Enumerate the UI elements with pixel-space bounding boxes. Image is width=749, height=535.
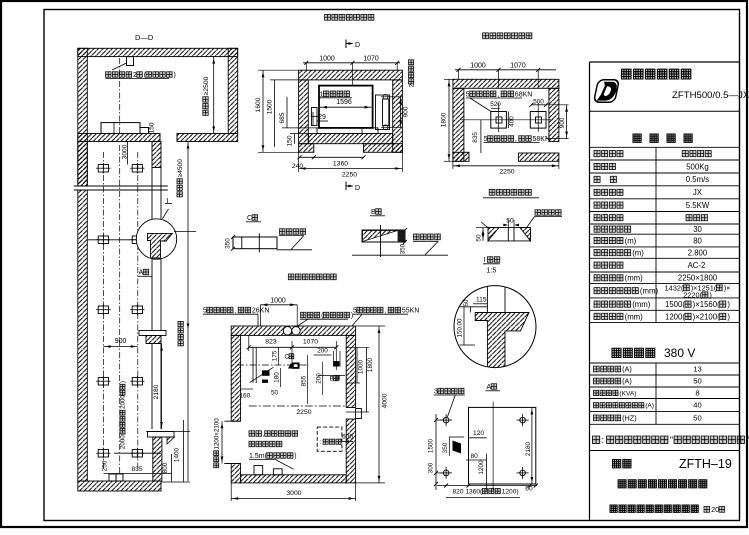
- pit plan title 底坑平面布置图: [483, 33, 532, 39]
- svg-text:): ): [174, 72, 176, 79]
- spec table grid: [590, 146, 740, 148]
- svg-text:1400: 1400: [173, 447, 180, 462]
- spec row 速 度: [594, 176, 616, 182]
- bracket row lines: [88, 239, 152, 241]
- svg-text:1.5m(: 1.5m(: [249, 453, 268, 460]
- svg-text:120: 120: [473, 430, 484, 437]
- dim 900 pit: [559, 117, 566, 128]
- svg-text:1500(: 1500(: [665, 300, 685, 309]
- svg-text:(m): (m): [632, 248, 644, 257]
- door opening jamb lines: [224, 420, 240, 422]
- spec row 电机功率: [594, 202, 623, 208]
- C view dim 350: [224, 238, 231, 249]
- svg-text:2250: 2250: [499, 169, 514, 176]
- mr plan bottom wall: [241, 475, 347, 483]
- slab rope hole edges: [159, 134, 161, 142]
- svg-text:50: 50: [506, 218, 514, 225]
- section marker D bottom: [345, 182, 347, 191]
- section header 技术说明: [633, 134, 641, 142]
- embed label 5号预埋件 26KN: [207, 307, 251, 313]
- landing sill 2: [148, 432, 175, 438]
- detail I corbel hatch: [475, 313, 529, 369]
- svg-text:1200: 1200: [478, 460, 485, 475]
- embed label 2号预埋件 rotated: [408, 60, 415, 88]
- shaft plan left dims: [255, 97, 262, 112]
- svg-text:0.5m/s: 0.5m/s: [686, 175, 709, 184]
- svg-text:2250×1800: 2250×1800: [678, 274, 718, 283]
- svg-text:1360(: 1360(: [465, 489, 483, 496]
- mr dim 2250: [249, 405, 346, 407]
- svg-text:C: C: [285, 354, 290, 361]
- svg-text:A: A: [487, 384, 492, 391]
- svg-text:I: I: [167, 198, 169, 205]
- shaft left wall: [78, 142, 88, 187]
- dim 900 counterweight: [403, 106, 410, 117]
- detail I circle: [454, 286, 536, 368]
- svg-text:150: 150: [148, 122, 155, 133]
- spec row 最大行程(m): [594, 237, 623, 243]
- mr plan left wall upper: [231, 335, 240, 421]
- svg-text:(KVA): (KVA): [619, 390, 636, 397]
- svg-text:600: 600: [342, 434, 353, 441]
- floor break lines: [74, 185, 168, 187]
- rail centerline right: [137, 152, 139, 470]
- C view slab: [233, 237, 277, 249]
- svg-text:2180: 2180: [153, 384, 160, 399]
- svg-text:1600: 1600: [255, 97, 262, 112]
- machine room floor slab left piece: [78, 134, 160, 142]
- svg-text:150.00: 150.00: [456, 318, 463, 337]
- pit buffer centerlines: [460, 119, 553, 121]
- svg-text:2.800: 2.800: [688, 248, 708, 257]
- A view anchor symbols 3号预埋件: [443, 417, 449, 423]
- mr plan right wall upper: [346, 335, 355, 407]
- svg-text:1000: 1000: [319, 56, 335, 63]
- view label C向: [252, 215, 258, 221]
- mr plan right wall lower: [346, 419, 355, 483]
- svg-text:240: 240: [292, 163, 304, 170]
- svg-text:1070: 1070: [303, 339, 318, 346]
- svg-text:(HZ): (HZ): [622, 414, 637, 423]
- svg-text:2: 2: [408, 84, 415, 88]
- spec row 井道尺寸 (mm): [594, 275, 623, 281]
- top floor height dim 顶层高≥4500: [177, 159, 184, 197]
- svg-text:820: 820: [453, 489, 464, 496]
- power row 电源容量(KVA): [594, 390, 619, 395]
- svg-text:30: 30: [693, 225, 702, 234]
- svg-text:400: 400: [509, 116, 516, 127]
- svg-text:(A): (A): [622, 365, 632, 374]
- svg-text:50: 50: [693, 414, 701, 423]
- mr plan top wall: [231, 326, 355, 335]
- svg-text::: :: [602, 435, 605, 445]
- svg-text:5: 5: [353, 308, 357, 315]
- view label B向: [376, 209, 382, 215]
- pit plan top wall: [453, 79, 559, 88]
- detail I rail lines: [486, 285, 488, 313]
- spec row 开门尺寸 (mm): [594, 313, 623, 319]
- svg-text:1000: 1000: [270, 298, 286, 305]
- view label A向 in shaft: [143, 269, 149, 275]
- svg-text:40: 40: [693, 401, 701, 410]
- car sill: [317, 128, 378, 134]
- svg-text:≥2500: ≥2500: [203, 76, 210, 95]
- svg-text:58KN: 58KN: [533, 136, 551, 143]
- detail circle corbel: [148, 233, 173, 258]
- svg-text:1000: 1000: [357, 359, 364, 374]
- dim 835 pit: [472, 132, 479, 143]
- mr floor plinths: [254, 466, 263, 475]
- machine room floor slab right piece: [177, 134, 238, 142]
- machine room left wall upper: [78, 48, 88, 186]
- svg-text:55KN: 55KN: [402, 308, 420, 315]
- svg-text:2250: 2250: [296, 409, 311, 416]
- svg-text:175: 175: [271, 350, 278, 361]
- shaft right wall edge lines upper: [151, 168, 153, 331]
- title block outline: [589, 62, 591, 521]
- shaft right wall top piece: [152, 142, 161, 168]
- svg-text:900: 900: [403, 106, 410, 117]
- spec row 开门方式: [594, 215, 623, 221]
- pit plan left wall: [453, 88, 464, 161]
- svg-text:AC-2: AC-2: [688, 261, 706, 270]
- svg-text:50: 50: [693, 377, 701, 386]
- svg-text:115: 115: [476, 297, 487, 304]
- svg-text:,: ,: [497, 91, 499, 98]
- machine room height dim 机房高≥2500: [203, 76, 210, 115]
- B view dim 350: [399, 243, 406, 254]
- mr door label 机房门1200×2100: [213, 418, 220, 468]
- svg-text:(mm): (mm): [640, 287, 659, 296]
- mr plan left wall lower: [231, 464, 240, 483]
- spec row 最小层站距(m): [594, 250, 631, 256]
- svg-text:855: 855: [300, 375, 307, 386]
- svg-text:(mm): (mm): [632, 300, 651, 309]
- svg-text:1070: 1070: [510, 63, 526, 70]
- svg-text:68KN: 68KN: [515, 91, 533, 98]
- hoisting hook: [127, 57, 134, 66]
- svg-text:(A): (A): [645, 403, 654, 410]
- spec row 轿厢外尺寸 (mm): [594, 301, 631, 307]
- pit plan left wall foot: [453, 152, 469, 161]
- label 机房楼面: [535, 210, 561, 216]
- power row 电源频率(HZ): [594, 415, 621, 421]
- svg-text:,: ,: [515, 136, 517, 143]
- shaft plan bottom dims 240 1360: [299, 156, 364, 158]
- logo Fuji D emblem: [594, 80, 620, 102]
- embed label 3号预埋件: [438, 388, 464, 394]
- svg-text:1200(: 1200(: [665, 312, 685, 321]
- mr view marker C向: [289, 354, 294, 359]
- svg-text:1500: 1500: [427, 438, 434, 453]
- svg-text:ZFTH–19: ZFTH–19: [679, 457, 732, 471]
- svg-text:1200×2100: 1200×2100: [213, 418, 220, 450]
- shaft plan bottom wall: [308, 134, 392, 144]
- svg-text:1:5: 1:5: [487, 268, 497, 275]
- title block divider: [590, 110, 740, 112]
- svg-text:(m): (m): [625, 236, 637, 245]
- C view label 机房楼板: [280, 229, 306, 235]
- detail circle I: [136, 219, 176, 259]
- mr right dims 1000 1800 4000: [357, 359, 364, 374]
- svg-text:4000: 4000: [382, 393, 389, 408]
- dim 400: [509, 116, 516, 127]
- section marker D top: [345, 40, 347, 49]
- shaft right wall edge lines mid: [151, 344, 153, 430]
- svg-text:,: ,: [384, 308, 386, 315]
- svg-text:ZFTH500/0.5—JX: ZFTH500/0.5—JX: [672, 90, 749, 101]
- svg-text:500Kg: 500Kg: [686, 162, 709, 171]
- svg-text:685: 685: [279, 112, 286, 123]
- svg-text:2250: 2250: [342, 172, 357, 179]
- svg-text:823: 823: [265, 339, 277, 346]
- travel height label 提升高度: [178, 321, 183, 346]
- svg-text:5.5KW: 5.5KW: [686, 201, 710, 210]
- A view bottom dims: [437, 485, 537, 487]
- svg-text:160: 160: [240, 393, 251, 400]
- pit buffer right: [530, 112, 546, 129]
- svg-text:180: 180: [273, 372, 280, 383]
- shaft plan left wall: [299, 80, 309, 144]
- svg-text:200: 200: [317, 348, 328, 355]
- shaft car centerline: [119, 145, 121, 473]
- svg-text:": ": [670, 435, 673, 445]
- svg-text:1200): 1200): [502, 489, 519, 496]
- svg-text:): ): [727, 300, 730, 309]
- note row 土建技术要求: [593, 436, 745, 443]
- svg-text:2220(: 2220(: [683, 291, 702, 300]
- drawing number row 图号 ZFTH-19: [613, 460, 632, 468]
- svg-text:50: 50: [463, 299, 470, 306]
- mr dim 855: [300, 375, 307, 386]
- power row 空气开关额定电流(A): [594, 403, 644, 408]
- svg-text:300: 300: [427, 462, 434, 473]
- svg-text:5: 5: [203, 308, 207, 315]
- A view sill wedge: [453, 441, 462, 454]
- mr view marker B向: [334, 376, 339, 381]
- svg-text:3: 3: [434, 389, 438, 396]
- spec row 控制方式: [594, 189, 623, 195]
- svg-text:(mm): (mm): [625, 274, 644, 283]
- dim 1400: [173, 447, 180, 462]
- pit buffer left: [491, 112, 507, 129]
- spec row 最大停站数: [594, 226, 631, 232]
- machine bench: [101, 123, 140, 134]
- car outline bold: [319, 86, 373, 128]
- svg-text:1800: 1800: [441, 112, 448, 127]
- shaft right wall lower hatched: [153, 437, 162, 481]
- company 珠江富士电梯有限公司: [610, 505, 698, 512]
- svg-text:I: I: [484, 257, 486, 264]
- svg-text:8: 8: [695, 388, 699, 397]
- power row 起动电流(A): [594, 378, 621, 384]
- svg-text:)×: )×: [724, 284, 731, 293]
- shaft plan bottom-right block: [364, 144, 403, 153]
- spec row 载重量: [594, 163, 615, 169]
- mr dim 175: [271, 350, 278, 361]
- svg-text:D: D: [355, 42, 360, 49]
- A view dim 1200: [478, 460, 485, 475]
- page number 第20页: [704, 507, 725, 513]
- svg-text:900: 900: [115, 338, 127, 345]
- shaft plan title 井道平面布置图: [325, 14, 374, 20]
- svg-text:835: 835: [132, 466, 143, 473]
- svg-text:(mm): (mm): [625, 312, 644, 321]
- shaft plan right wall: [393, 80, 403, 152]
- svg-text:D: D: [355, 185, 360, 192]
- section title 机房开孔型式: [489, 189, 531, 195]
- svg-text:200: 200: [316, 373, 323, 384]
- svg-text:1500: 1500: [267, 99, 274, 114]
- svg-text:JX: JX: [693, 188, 703, 197]
- A view door rect: [469, 407, 536, 484]
- svg-text:350: 350: [224, 238, 231, 249]
- shaft plan dim 2250: [299, 168, 403, 170]
- rope centerline machine room: [119, 58, 121, 134]
- pit plan bottom-right block: [518, 153, 559, 161]
- machine room plan title 机房平面布置图: [288, 274, 336, 280]
- svg-text:1360: 1360: [333, 161, 348, 168]
- svg-text:520: 520: [490, 101, 501, 108]
- mr machine parts: [252, 347, 254, 383]
- svg-text:): ): [709, 291, 711, 300]
- svg-text:13: 13: [693, 365, 701, 374]
- machine room top wall: [78, 48, 238, 56]
- rail centerline left: [103, 152, 105, 470]
- svg-text:,: ,: [234, 308, 236, 315]
- svg-text:5: 5: [484, 136, 488, 143]
- pit plan right wall: [549, 88, 559, 141]
- landing sill 1: [139, 331, 166, 336]
- power table grid: [590, 374, 740, 376]
- B view label 机房楼板: [414, 234, 441, 240]
- svg-text:1800: 1800: [367, 357, 374, 372]
- svg-text:): ): [294, 453, 296, 460]
- control panel 控制屏: [317, 427, 342, 451]
- mr plan cable box right: [356, 409, 362, 419]
- svg-text:250: 250: [101, 460, 108, 471]
- svg-text:≥4500: ≥4500: [177, 159, 184, 178]
- svg-text:B: B: [371, 209, 376, 216]
- mr machine centerline: [237, 364, 309, 366]
- mr dim 180: [273, 372, 280, 383]
- detail leader I: [162, 209, 168, 219]
- svg-text:): ): [120, 381, 127, 383]
- A view centerline: [492, 402, 494, 491]
- mr right structures: [333, 351, 335, 367]
- svg-text:1596: 1596: [336, 99, 352, 106]
- counterweight frame: [376, 95, 390, 130]
- embed label 5号预埋件 68KN: [470, 91, 514, 97]
- svg-text:500: 500: [533, 98, 544, 105]
- fan label 排风扇(用户自理): [301, 312, 350, 318]
- svg-text:900: 900: [559, 117, 566, 128]
- embed label 5号预埋件 58KN: [488, 136, 532, 142]
- svg-text:1: 1: [320, 91, 324, 98]
- pit buffers: [109, 474, 116, 481]
- mr dim 200 mid: [316, 373, 323, 384]
- detail label I 放大 1:5: [487, 257, 499, 263]
- dim 3000 below slab: [122, 144, 129, 159]
- hook load label 吊钩承重2吨(用户自理): [106, 72, 173, 78]
- svg-text:1000: 1000: [470, 63, 486, 70]
- dim 2180 floor distance: [153, 384, 160, 399]
- embed label 1号预埋件: [323, 91, 349, 97]
- svg-text::: :: [320, 439, 322, 446]
- shaft plan top wall: [299, 70, 403, 80]
- svg-text:60: 60: [525, 486, 533, 493]
- shaft plan bottom-left foot: [299, 144, 314, 153]
- svg-text:350: 350: [399, 243, 406, 254]
- power row 额定电流(A): [594, 366, 621, 372]
- svg-text:): ): [727, 312, 730, 321]
- svg-text:350: 350: [442, 442, 449, 453]
- svg-text:1432(: 1432(: [665, 284, 684, 293]
- svg-text:2000(: 2000(: [120, 432, 127, 449]
- svg-text:(A): (A): [622, 377, 632, 386]
- spec row 轿厢内净尺寸(mm): [594, 288, 638, 294]
- dim 250 buffer: [101, 460, 108, 471]
- svg-text:B: B: [330, 376, 334, 383]
- B view slab wedge: [362, 230, 405, 242]
- svg-text:D—D: D—D: [135, 33, 154, 42]
- svg-text:A: A: [139, 270, 144, 277]
- embed label 5号预埋件 55KN: [357, 307, 401, 313]
- mr door dim line: [221, 421, 223, 463]
- dim 800: [162, 462, 169, 473]
- svg-text:50: 50: [475, 234, 482, 242]
- dim 2000 rail embed 以上层距2000预埋: [120, 381, 127, 449]
- A view left dims 1500 300: [435, 414, 437, 490]
- drawing title 电梯土建总体布置图: [618, 480, 707, 488]
- dim 1800 pit: [441, 112, 448, 127]
- power switch note 动力照明: [249, 431, 298, 437]
- svg-text:80: 80: [693, 236, 702, 245]
- pit floor slab: [78, 481, 161, 491]
- spec row 电梯型号: [594, 151, 623, 157]
- svg-text:150: 150: [287, 135, 294, 146]
- svg-text:800: 800: [162, 462, 169, 473]
- svg-text:2: 2: [133, 72, 137, 79]
- svg-text:3000: 3000: [286, 490, 301, 497]
- svg-text:2000: 2000: [120, 395, 127, 409]
- svg-text:C: C: [247, 215, 252, 222]
- left rail bracket: [312, 108, 318, 126]
- rail brackets rows: [98, 165, 108, 173]
- exhaust fan: [283, 327, 291, 335]
- svg-text:80: 80: [471, 453, 479, 460]
- machine room right wall: [228, 48, 238, 133]
- svg-text:50: 50: [271, 390, 279, 397]
- hole dim 50 left: [475, 234, 482, 242]
- bench height dim 150: [148, 122, 155, 133]
- company name 日本富士电梯: [622, 69, 691, 79]
- svg-text:5: 5: [466, 91, 470, 98]
- svg-text:)×2100(: )×2100(: [693, 312, 720, 321]
- A view dim 2180: [525, 441, 532, 456]
- svg-text:,: ,: [263, 431, 265, 438]
- svg-text:)×1560(: )×1560(: [693, 300, 720, 309]
- svg-text:29: 29: [318, 114, 326, 121]
- pit plan dim 2250: [453, 165, 559, 167]
- spec value 轿厢内净尺寸 two-line: [684, 285, 723, 291]
- svg-text:835: 835: [472, 132, 479, 143]
- spec row 拖动方式: [594, 262, 623, 268]
- svg-text:2180: 2180: [525, 441, 532, 456]
- hole section slab: [488, 227, 531, 229]
- svg-text:20: 20: [711, 505, 719, 514]
- svg-text:380 V: 380 V: [664, 346, 695, 360]
